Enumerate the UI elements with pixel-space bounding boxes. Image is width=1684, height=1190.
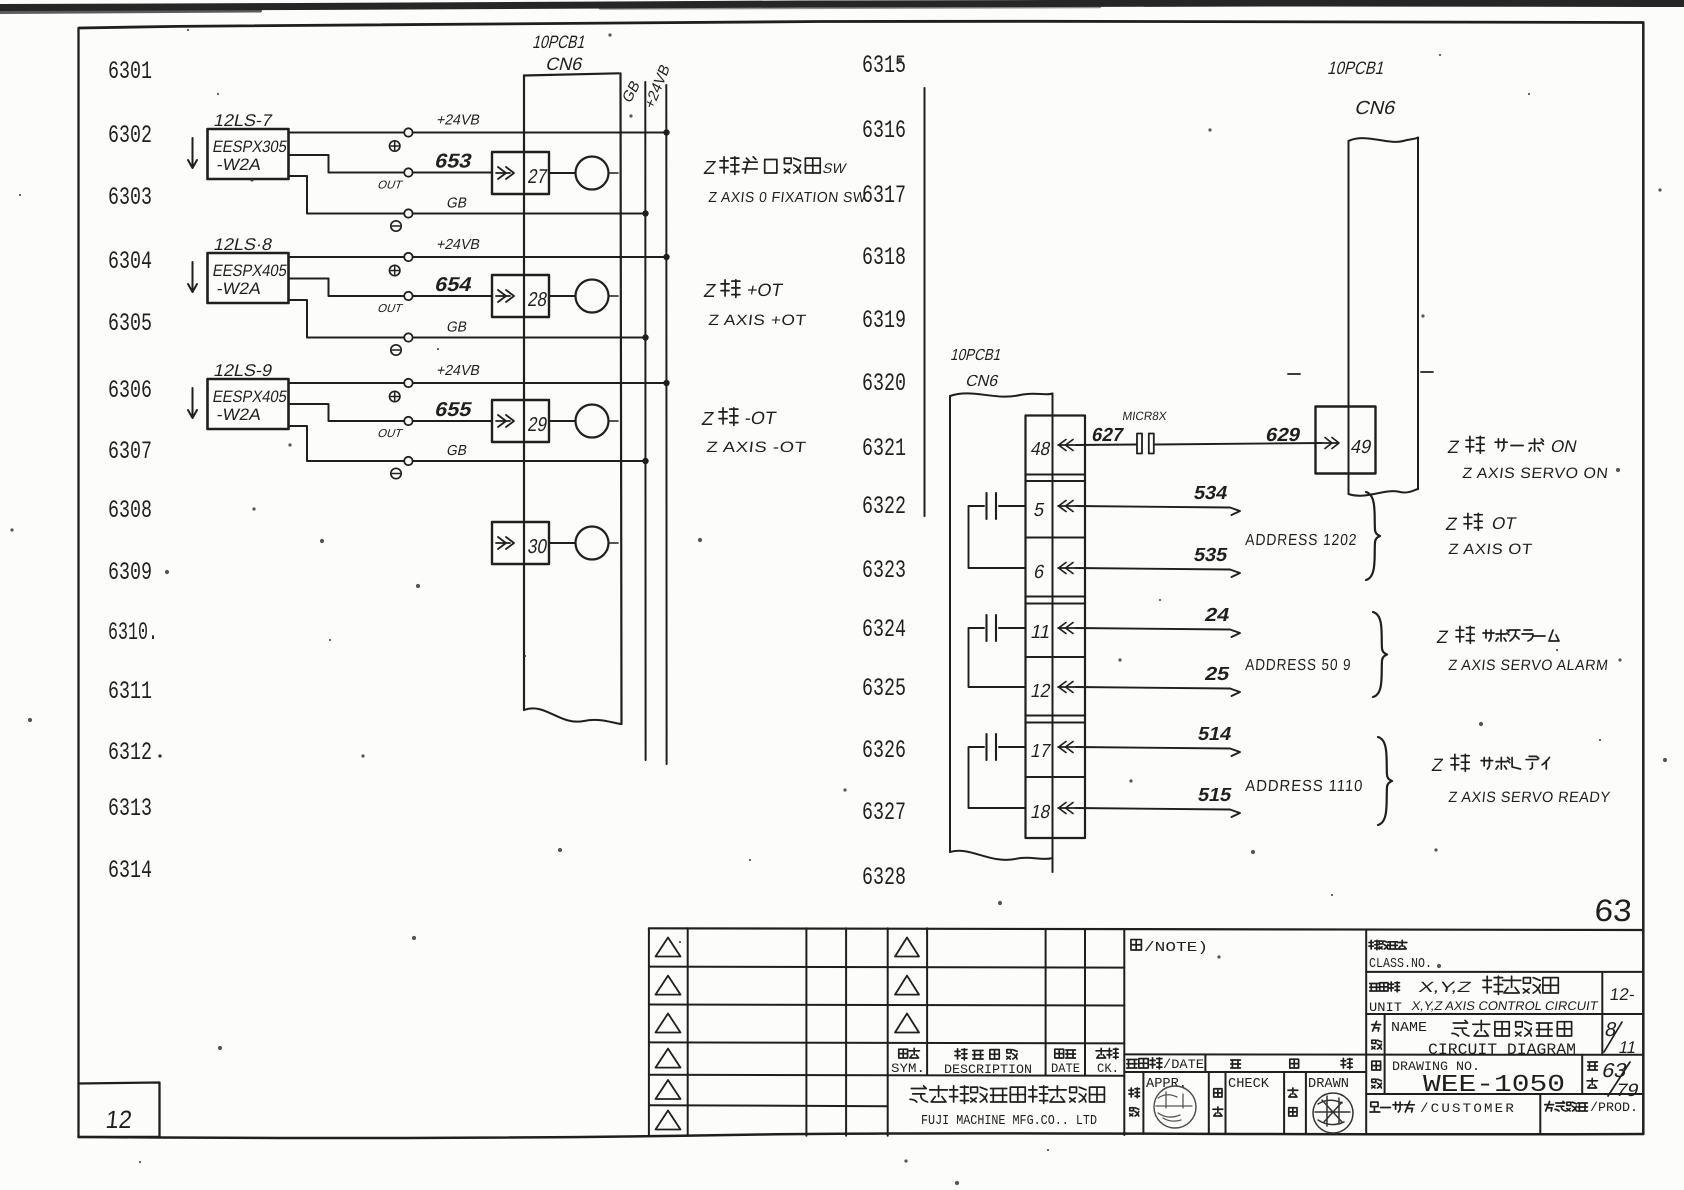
capacitor between pins (17-18) xyxy=(969,734,1026,808)
svg-text:653: 653 xyxy=(433,151,474,173)
wire signal 535 xyxy=(1076,545,1240,577)
svg-text:10PCB1: 10PCB1 xyxy=(531,31,588,52)
svg-text:Z: Z xyxy=(1446,437,1460,457)
svg-text:6320: 6320 xyxy=(862,369,906,398)
input module 27 with lamp xyxy=(492,152,618,194)
brace group Z axis servo alarm xyxy=(1373,612,1387,697)
wire signal 629 to pin 49 xyxy=(1155,425,1322,446)
svg-text:DESCRIPTION: DESCRIPTION xyxy=(944,1062,1032,1077)
svg-text:DRAWN: DRAWN xyxy=(1308,1077,1349,1092)
svg-text:6326: 6326 xyxy=(862,736,906,765)
svg-text:654: 654 xyxy=(433,274,475,296)
svg-text:OUT: OUT xyxy=(376,427,404,440)
svg-text:Z: Z xyxy=(702,281,718,302)
node line numbers 6301-6314 xyxy=(108,57,162,885)
capacitor between pins (5-6) xyxy=(969,493,1026,568)
svg-text:GB: GB xyxy=(445,320,468,336)
svg-text:+24VB: +24VB xyxy=(435,113,481,129)
unit cell xyxy=(1369,976,1636,1015)
svg-text:629: 629 xyxy=(1264,425,1302,446)
svg-text:/NOTE): /NOTE) xyxy=(1144,940,1208,956)
wire OUT signal 654 from 12LS&#183;8 to receiver 28 xyxy=(289,274,493,315)
svg-text:Z: Z xyxy=(1444,514,1458,534)
wire OUT signal 655 from 12LS-9 to receiver 29 xyxy=(289,399,493,440)
title block grid xyxy=(649,928,1643,1135)
wire vertical bus left of right section xyxy=(924,88,926,516)
svg-text:18: 18 xyxy=(1029,802,1052,823)
name cell CIRCUIT DIAGRAM xyxy=(1372,1019,1639,1059)
svg-text:6302: 6302 xyxy=(108,121,152,150)
svg-text:ADDRESS 50 9: ADDRESS 50 9 xyxy=(1245,657,1352,674)
svg-text:MICR8X: MICR8X xyxy=(1122,409,1168,423)
svg-text:CLASS.NO.: CLASS.NO. xyxy=(1369,957,1432,972)
wire signal 25 xyxy=(1076,664,1240,696)
wire +24VB from 12LS-7 to +24VB rail xyxy=(289,113,670,152)
net GB rail xyxy=(619,77,645,760)
svg-text:514: 514 xyxy=(1196,724,1234,745)
svg-text:655: 655 xyxy=(433,399,474,421)
svg-text:CHECK: CHECK xyxy=(1228,1077,1270,1092)
svg-text:12LS-9: 12LS-9 xyxy=(212,360,274,380)
svg-text:ON: ON xyxy=(1549,436,1579,456)
wire GB from 12LS-9 to GB rail xyxy=(289,426,649,479)
svg-text:6301: 6301 xyxy=(108,57,152,86)
svg-text:Z AXIS SERVO READY: Z AXIS SERVO READY xyxy=(1448,789,1612,806)
svg-text:EESPX405: EESPX405 xyxy=(211,387,288,406)
svg-text:12LS-7: 12LS-7 xyxy=(212,110,274,130)
svg-text:6309: 6309 xyxy=(108,558,152,587)
wire signal 534 xyxy=(1076,483,1240,515)
annotation Z axis servo ready xyxy=(1430,754,1611,806)
svg-text:6327: 6327 xyxy=(862,798,906,827)
svg-text:Z: Z xyxy=(702,158,718,179)
svg-text:6328: 6328 xyxy=(862,863,906,892)
svg-text:6: 6 xyxy=(1032,562,1046,583)
svg-text:24: 24 xyxy=(1203,605,1232,626)
svg-text:-OT: -OT xyxy=(743,408,777,428)
wire signal 515 xyxy=(1076,785,1240,817)
svg-text:OUT: OUT xyxy=(376,179,404,192)
svg-text:5: 5 xyxy=(1032,500,1046,521)
customer cell xyxy=(1370,1101,1638,1116)
annotation Z axis servo alarm xyxy=(1435,626,1609,674)
svg-text:6305: 6305 xyxy=(108,309,152,338)
svg-text:6308: 6308 xyxy=(108,496,152,525)
svg-text:GB: GB xyxy=(445,196,468,212)
svg-text:CIRCUIT DIAGRAM: CIRCUIT DIAGRAM xyxy=(1428,1041,1576,1059)
wire GB from 12LS-7 to GB rail xyxy=(289,176,649,231)
svg-text:79: 79 xyxy=(1614,1079,1641,1100)
approval stamps row xyxy=(1129,1077,1353,1133)
svg-text:Z: Z xyxy=(700,409,716,430)
wire +24VB from 12LS&#183;8 to +24VB rail xyxy=(289,237,670,276)
label 10PCB1 CN6 (right section connector) xyxy=(949,346,1003,390)
svg-text:SW: SW xyxy=(821,161,848,177)
wire GB from 12LS&#183;8 to GB rail xyxy=(289,300,649,355)
svg-text:6325: 6325 xyxy=(862,674,906,703)
svg-text:+24VB: +24VB xyxy=(642,61,674,112)
svg-text:515: 515 xyxy=(1196,785,1234,806)
svg-text:6318: 6318 xyxy=(862,243,906,272)
note cell xyxy=(1131,940,1208,956)
svg-text:6303: 6303 xyxy=(108,183,152,212)
annotation Z axis +OT xyxy=(702,280,807,329)
brace group Z axis OT xyxy=(1366,492,1380,580)
sheet number box 12 xyxy=(79,1083,160,1138)
input module 29 with lamp xyxy=(492,400,618,442)
connector pair MICR8X xyxy=(1122,409,1168,453)
label 10PCB1 CN6 (top right) xyxy=(1326,57,1398,119)
svg-text:ADDRESS 1110: ADDRESS 1110 xyxy=(1245,778,1364,795)
svg-text:17: 17 xyxy=(1029,741,1052,762)
date row xyxy=(1127,1057,1352,1072)
svg-text:6304: 6304 xyxy=(108,247,152,276)
limit switch 12LS-7 (EESPX305-W2A) xyxy=(188,110,289,179)
label page number 63 xyxy=(1594,893,1633,928)
drawing no cell WEE-1050 xyxy=(1372,1059,1641,1100)
svg-text:6307: 6307 xyxy=(108,437,152,466)
svg-text:535: 535 xyxy=(1192,545,1230,566)
svg-text:EESPX405: EESPX405 xyxy=(211,261,288,280)
node line numbers 6315-6328 xyxy=(862,51,906,892)
node alignment ticks xyxy=(1288,372,1433,374)
revision triangles xyxy=(656,938,920,1130)
svg-text:+24VB: +24VB xyxy=(435,237,481,253)
brace group Z axis servo ready xyxy=(1378,737,1392,825)
svg-text:29: 29 xyxy=(526,414,549,436)
svg-text:Z: Z xyxy=(1430,755,1444,775)
svg-text:/CUSTOMER: /CUSTOMER xyxy=(1420,1101,1516,1116)
svg-text:Z: Z xyxy=(1435,627,1449,647)
input module 30 with lamp xyxy=(492,522,618,564)
limit switch 12LS&#183;8 (EESPX405-W2A) xyxy=(188,234,289,303)
svg-text:6323: 6323 xyxy=(862,556,906,585)
svg-text:12-: 12- xyxy=(1608,985,1636,1004)
label ADDRESS 509 xyxy=(1245,657,1352,674)
label ADDRESS 1110 xyxy=(1245,778,1364,795)
wire +24VB from 12LS-9 to +24VB rail xyxy=(289,363,670,402)
svg-text:11: 11 xyxy=(1029,622,1052,643)
svg-text:CK.: CK. xyxy=(1097,1061,1119,1076)
svg-text:6314: 6314 xyxy=(108,856,152,885)
svg-text:6316: 6316 xyxy=(862,116,906,145)
svg-text:-W2A: -W2A xyxy=(215,155,263,174)
svg-text:30: 30 xyxy=(526,536,549,558)
svg-text:627: 627 xyxy=(1090,425,1125,446)
wire signal 24 xyxy=(1076,605,1240,637)
svg-text:CN6: CN6 xyxy=(964,372,1000,390)
svg-text:UNIT: UNIT xyxy=(1369,1000,1402,1015)
svg-text:X,Y,Z AXIS CONTROL CIRCUIT: X,Y,Z AXIS CONTROL CIRCUIT xyxy=(1410,999,1599,1013)
svg-text:6313: 6313 xyxy=(108,794,152,823)
wire OUT signal 653 from 12LS-7 to receiver 27 xyxy=(289,151,493,192)
input module 28 with lamp xyxy=(492,275,618,317)
wire signal 514 xyxy=(1076,724,1240,756)
svg-text:6319: 6319 xyxy=(862,306,906,335)
svg-text:6324: 6324 xyxy=(862,615,906,644)
connector 10PCB1 CN6 (right section, left side) xyxy=(950,393,1053,872)
svg-text:FUJI MACHINE MFG.CO.. LTD: FUJI MACHINE MFG.CO.. LTD xyxy=(921,1114,1097,1129)
svg-text:6321: 6321 xyxy=(862,434,906,463)
svg-text:CN6: CN6 xyxy=(544,53,585,74)
svg-text:EESPX305: EESPX305 xyxy=(211,137,288,156)
svg-text:10PCB1: 10PCB1 xyxy=(949,346,1003,364)
svg-text:Z AXIS -OT: Z AXIS -OT xyxy=(706,439,808,456)
svg-text:Z AXIS +OT: Z AXIS +OT xyxy=(708,312,808,329)
annotation Z axis OT xyxy=(1444,513,1533,558)
svg-text:12: 12 xyxy=(1029,681,1052,702)
svg-text:10PCB1: 10PCB1 xyxy=(1326,57,1387,78)
title block header SYM/DESCRIPTION/DATE/CK xyxy=(891,1048,1119,1077)
svg-text:Z AXIS SERVO ALARM: Z AXIS SERVO ALARM xyxy=(1448,657,1610,674)
svg-text:WEE-1050: WEE-1050 xyxy=(1423,1072,1565,1099)
svg-text:6306: 6306 xyxy=(108,376,152,405)
svg-text:Z AXIS 0 FIXATION SW: Z AXIS 0 FIXATION SW xyxy=(708,190,868,206)
svg-text:Z AXIS OT: Z AXIS OT xyxy=(1448,541,1534,558)
svg-text:+OT: +OT xyxy=(745,280,784,300)
svg-text:/PROD.: /PROD. xyxy=(1590,1101,1638,1115)
svg-text:6322: 6322 xyxy=(862,492,906,521)
svg-text:DATE: DATE xyxy=(1051,1061,1080,1076)
svg-text:12: 12 xyxy=(104,1106,133,1134)
svg-text:27: 27 xyxy=(526,166,549,188)
svg-text:12LS·8: 12LS·8 xyxy=(212,234,274,254)
svg-text:SYM.: SYM. xyxy=(891,1061,925,1076)
label ADDRESS 1202 xyxy=(1245,532,1358,549)
svg-text:NAME: NAME xyxy=(1391,1021,1427,1036)
svg-text:49: 49 xyxy=(1349,437,1373,458)
connector 10PCB1 CN6 (top right) xyxy=(1349,138,1419,496)
svg-text:6317: 6317 xyxy=(862,181,906,210)
svg-text:OT: OT xyxy=(1490,513,1518,533)
svg-text:Z AXIS SERVO ON: Z AXIS SERVO ON xyxy=(1462,465,1610,482)
svg-text:/DATE: /DATE xyxy=(1163,1057,1204,1072)
svg-text:-W2A: -W2A xyxy=(215,279,263,298)
svg-text:GB: GB xyxy=(445,443,468,459)
company name FUJI MACHINE xyxy=(910,1086,1104,1129)
svg-text:6311: 6311 xyxy=(108,677,152,706)
svg-text:48: 48 xyxy=(1029,439,1052,460)
svg-text:6315: 6315 xyxy=(862,51,906,80)
svg-text:APPR.: APPR. xyxy=(1146,1077,1187,1092)
net +24VB rail xyxy=(642,61,674,764)
svg-text:CN6: CN6 xyxy=(1353,98,1398,119)
connector pins 48,5,6,11,12,17,18 xyxy=(1029,439,1076,823)
svg-text:6310.: 6310. xyxy=(108,618,158,647)
svg-text:534: 534 xyxy=(1192,483,1230,504)
input module 49 xyxy=(1316,407,1376,474)
label 10PCB1 CN6 (left connector) xyxy=(531,31,588,74)
limit switch 12LS-9 (EESPX405-W2A) xyxy=(188,360,289,429)
class no cell xyxy=(1369,940,1432,972)
connector 10PCB1 CN6 (left) xyxy=(524,73,622,724)
annotation Z axis -OT xyxy=(700,408,807,456)
svg-text:6312: 6312 xyxy=(108,738,152,767)
svg-text:25: 25 xyxy=(1203,664,1232,685)
svg-text:+24VB: +24VB xyxy=(435,363,481,379)
svg-text:ADDRESS 1202: ADDRESS 1202 xyxy=(1245,532,1358,549)
svg-text:63: 63 xyxy=(1594,893,1633,928)
annotation Z axis 0 fixation SW xyxy=(702,157,867,206)
annotation Z axis servo ON xyxy=(1446,436,1609,482)
svg-text:GB: GB xyxy=(619,77,643,106)
connector pin strip xyxy=(1026,416,1086,839)
svg-text:28: 28 xyxy=(526,289,549,311)
capacitor between pins (11-12) xyxy=(969,615,1026,687)
svg-text:-W2A: -W2A xyxy=(215,405,263,424)
svg-text:OUT: OUT xyxy=(376,302,404,315)
wire signal 627 from pin 48 xyxy=(1076,425,1136,446)
svg-text:X,Y,Z: X,Y,Z xyxy=(1417,979,1473,996)
